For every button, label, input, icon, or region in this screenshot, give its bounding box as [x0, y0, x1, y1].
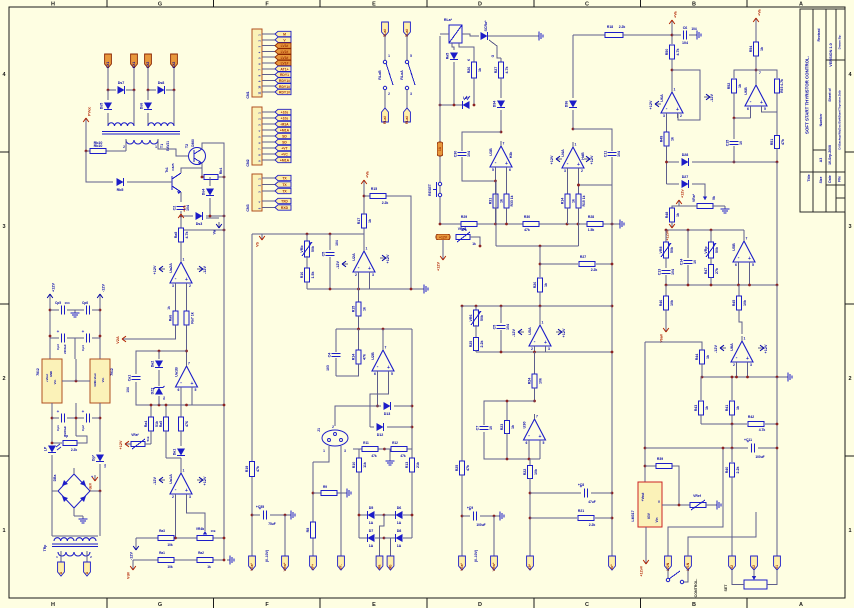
- resistor Rb10: [86, 150, 90, 152]
- svg-text:2.2k: 2.2k: [619, 25, 626, 29]
- port RDY1#: [275, 84, 291, 89]
- wire VRef to ground: [706, 504, 714, 506]
- resistor Ra4: [150, 405, 152, 417]
- svg-text:R50: R50: [665, 49, 669, 56]
- diode D6: [396, 506, 403, 525]
- svg-text:-M1A: -M1A: [280, 123, 289, 127]
- svg-text:VR4b: VR4b: [196, 527, 204, 531]
- port X2b: [751, 556, 758, 570]
- svg-text:1: 1: [366, 247, 368, 251]
- svg-text:+C8: +C8: [578, 483, 584, 487]
- resistor R25c: [455, 461, 470, 475]
- junction U4A output: [572, 128, 575, 131]
- resistor R19: [245, 462, 260, 477]
- port +M1A: [275, 127, 291, 132]
- resistor R45: [738, 285, 740, 296]
- svg-text:C6: C6: [683, 26, 688, 30]
- svg-text:Cp5: Cp5: [55, 301, 61, 305]
- svg-text:+: +: [82, 329, 85, 334]
- resistor R14b: [561, 194, 576, 208]
- port X2: [729, 556, 736, 570]
- svg-text:1: 1: [183, 469, 185, 473]
- port VF-: [338, 556, 345, 570]
- svg-text:Ma: Ma: [378, 565, 382, 570]
- power PVcc: [83, 107, 91, 124]
- svg-text:D13: D13: [384, 412, 391, 416]
- resistor R15b: [576, 194, 581, 208]
- power +12V Ua1A: [197, 476, 207, 485]
- port LV2#: [275, 49, 291, 54]
- wire Ra6 to V2A arrow: [128, 325, 176, 339]
- svg-text:C7: C7: [476, 426, 480, 431]
- svg-text:21k: 21k: [416, 462, 420, 468]
- wire Da1 to Ua1A: [180, 463, 182, 468]
- diode D8: [396, 529, 403, 548]
- port TX: [275, 182, 291, 187]
- long wire x612: [611, 185, 613, 556]
- SET right wire: [767, 570, 777, 585]
- wire node down: [539, 246, 541, 277]
- svg-text:SOFT START THYRISTOR CONTROL.: SOFT START THYRISTOR CONTROL.: [805, 56, 810, 134]
- capacitor C15: [733, 118, 735, 139]
- wire LV1N branch: [688, 512, 756, 556]
- capacitor Ca1: [128, 375, 141, 382]
- svg-text:CX1: CX1: [106, 62, 110, 69]
- svg-text:2: 2: [355, 273, 357, 277]
- svg-text:R44: R44: [695, 354, 699, 361]
- svg-text:1k: 1k: [511, 425, 515, 429]
- svg-text:G: G: [491, 54, 495, 57]
- port RXD: [275, 205, 291, 210]
- resistor R26b: [533, 278, 548, 292]
- svg-text:Size: Size: [819, 176, 823, 183]
- port +M1A: [275, 157, 291, 162]
- wire Ts1 base: [169, 181, 172, 183]
- resistor R13: [411, 449, 413, 458]
- power +12v LM317: [640, 558, 649, 577]
- resistor R24: [534, 352, 536, 374]
- resistor R49: [660, 132, 675, 146]
- svg-text:H: H: [51, 602, 55, 608]
- resistor R44: [695, 350, 710, 364]
- svg-text:C13: C13: [658, 269, 662, 276]
- svg-text:La*: La*: [463, 96, 469, 100]
- svg-text:Ds4: Ds4: [202, 189, 206, 196]
- svg-text:10k: 10k: [743, 300, 747, 306]
- port Ma: [376, 556, 383, 570]
- svg-text:10k: 10k: [534, 469, 538, 475]
- svg-text:G: G: [158, 2, 162, 8]
- svg-text:R53 4.7k: R53 4.7k: [780, 79, 784, 93]
- port M: [275, 31, 291, 36]
- svg-text:-: -: [567, 161, 569, 167]
- resistor Ra3: [158, 535, 174, 540]
- ground R9: [344, 489, 351, 498]
- svg-text:+12v#: +12v#: [640, 565, 644, 577]
- wire KX1 stem: [133, 68, 135, 90]
- op-amp U3B: [489, 141, 513, 172]
- resistor R41: [731, 377, 733, 400]
- pin 5 of CN2: [262, 135, 275, 137]
- port LV2N: [665, 556, 672, 571]
- svg-text:Vd#: Vd#: [127, 571, 131, 579]
- wire U2B pin6: [377, 376, 379, 406]
- power +12v pot: [676, 189, 684, 206]
- row y538: [136, 537, 158, 539]
- pin 6 of CN1: [262, 62, 275, 64]
- pin 7 of CN1: [262, 68, 275, 70]
- svg-text:+10s: +10s: [281, 111, 289, 115]
- svg-text:1: 1: [575, 143, 577, 147]
- power +12V U6A: [649, 100, 661, 109]
- op-amp Ua2A: [169, 257, 192, 288]
- svg-text:Ra2: Ra2: [198, 551, 204, 555]
- port SD: [275, 133, 291, 138]
- resistor Ra2: [197, 557, 213, 562]
- power +12V below pill: [442, 240, 444, 254]
- op-amp U8A: [730, 336, 753, 367]
- svg-text:DBa: DBa: [53, 475, 57, 482]
- svg-text:1: 1: [323, 449, 325, 453]
- op-amp Ua1B: [175, 361, 198, 392]
- svg-text:+: +: [676, 107, 679, 113]
- diode Ds5: [107, 90, 109, 100]
- capacitor Cp1: [52, 417, 59, 419]
- diode Da1: [173, 449, 186, 456]
- svg-text:TRp: TRp: [43, 545, 47, 552]
- power +12V supply: [47, 283, 55, 300]
- svg-text:Revised: Revised: [817, 28, 821, 41]
- capacitor C9 row: [462, 515, 470, 517]
- svg-text:1: 1: [388, 54, 390, 58]
- pin 7 of CN2: [262, 147, 275, 149]
- svg-text:R19: R19: [245, 466, 249, 473]
- wire C2 down: [180, 211, 182, 230]
- port CX1: [105, 54, 112, 68]
- svg-text:VRa*: VRa*: [692, 193, 696, 202]
- svg-text:C2: C2: [173, 206, 177, 211]
- svg-text:2: 2: [332, 425, 334, 429]
- svg-text:RDY1: RDY1: [280, 73, 289, 77]
- power +12V Ua2A: [153, 265, 165, 274]
- svg-text:D:\Backup\MyDoc\SoftStart\Thyr: D:\Backup\MyDoc\SoftStart\Thyristor.Ddb: [838, 90, 842, 150]
- svg-text:1k: 1k: [760, 47, 764, 51]
- svg-text:Dp*: Dp*: [92, 454, 96, 461]
- svg-text:VRw*: VRw*: [283, 562, 287, 571]
- svg-text:100uF: 100uF: [755, 455, 764, 459]
- svg-text:J1: J1: [317, 428, 321, 432]
- svg-text:U5B: U5B: [732, 243, 736, 251]
- svg-text:1k: 1k: [705, 406, 709, 410]
- svg-text:Ua1B: Ua1B: [175, 367, 179, 377]
- svg-text:47k: 47k: [466, 465, 470, 471]
- svg-text:H3k: H3k: [509, 152, 513, 159]
- ground SCR cathode: [536, 32, 543, 41]
- svg-text:+Va: +Va: [674, 10, 678, 18]
- right box side x412: [411, 329, 413, 449]
- svg-text:104: 104: [467, 151, 471, 157]
- svg-text:+12V: +12V: [437, 262, 441, 271]
- ground row end: [227, 556, 234, 565]
- pin 3 of CN3: [262, 190, 275, 192]
- diode D34: [500, 78, 502, 98]
- svg-text:83V: 83V: [647, 512, 651, 519]
- svg-text:-12V: -12V: [203, 266, 207, 274]
- svg-text:U3B: U3B: [489, 148, 493, 156]
- capacitor Cp3: [50, 337, 59, 339]
- svg-text:V2A: V2A: [116, 336, 120, 344]
- svg-text:1: 1: [674, 88, 676, 92]
- svg-text:-12V: -12V: [710, 94, 714, 102]
- top wire to LV port branch: [668, 448, 723, 556]
- feedback box U3B with C30: [462, 132, 501, 151]
- ground U2A rail: [421, 285, 428, 294]
- power Vd# arrow: [132, 560, 134, 564]
- wire pot right to ground: [713, 205, 725, 207]
- connector CN1: [252, 29, 262, 97]
- svg-text:47k: 47k: [371, 454, 377, 458]
- svg-text:+Va: +Va: [366, 170, 370, 178]
- junction dots diode row: [107, 89, 110, 92]
- svg-text:AT1+: AT1+: [280, 67, 288, 71]
- transformer T1: [108, 123, 134, 126]
- svg-text:GND-Vout: GND-Vout: [93, 373, 97, 386]
- svg-text:3: 3: [750, 363, 752, 367]
- svg-text:1k: 1k: [676, 213, 680, 217]
- svg-text:R43: R43: [694, 405, 698, 412]
- resistor R21 row: [530, 517, 577, 519]
- diode D5: [368, 506, 375, 525]
- port AT1+: [275, 66, 291, 71]
- svg-text:1A: 1A: [397, 521, 402, 525]
- svg-text:2.2k: 2.2k: [736, 467, 740, 474]
- pin 4 of CN3: [262, 200, 275, 202]
- svg-text:R26: R26: [467, 67, 471, 74]
- junction dots rail: [439, 223, 442, 226]
- pot VRef: [690, 502, 706, 507]
- LED LP: [44, 444, 62, 453]
- fuse pill: [437, 142, 443, 156]
- capacitor C6: [672, 34, 681, 36]
- wire LM317 bottom: [645, 527, 647, 558]
- capacitor Cp6: [92, 309, 100, 311]
- svg-text:10k: 10k: [210, 529, 215, 533]
- op-amp U2B: [371, 345, 394, 376]
- pin 2 of CN2: [262, 117, 275, 119]
- port A5#: [527, 556, 534, 570]
- wire J1 pin1: [313, 446, 329, 462]
- svg-text:7: 7: [188, 362, 190, 366]
- svg-text:R41: R41: [725, 405, 729, 412]
- svg-text:1A: 1A: [369, 521, 374, 525]
- svg-text:U8A: U8A: [730, 343, 734, 351]
- port KX1: [131, 54, 138, 68]
- svg-text:10: 10: [489, 426, 493, 430]
- pin 3 of CN2: [262, 123, 275, 125]
- svg-text:X1: X1: [775, 565, 779, 569]
- svg-text:5k: 5k: [712, 196, 716, 200]
- svg-text:TXD: TXD: [281, 200, 288, 204]
- capacitor C13: [665, 258, 667, 268]
- svg-text:5: 5: [195, 388, 197, 392]
- svg-text:U30: U30: [523, 422, 527, 429]
- resistor R18: [605, 32, 623, 37]
- diode D27: [667, 183, 680, 185]
- svg-text:104: 104: [691, 27, 697, 31]
- svg-text:VRa*: VRa*: [131, 433, 139, 437]
- svg-text:VRef: VRef: [693, 494, 702, 498]
- svg-text:U2B: U2B: [371, 352, 375, 360]
- svg-text:+: +: [577, 162, 580, 168]
- op-amp U5B: [732, 236, 755, 267]
- svg-text:1A: 1A: [369, 544, 374, 548]
- svg-text:+VT: +VT: [281, 147, 288, 151]
- svg-text:B: B: [692, 602, 696, 608]
- wire U8A pins: [736, 367, 738, 377]
- svg-text:47k: 47k: [781, 139, 785, 145]
- svg-text:1k: 1k: [572, 199, 576, 203]
- wire bridge bottom: [73, 508, 75, 516]
- svg-text:1k: 1k: [472, 242, 476, 246]
- diode Ra5: [452, 43, 454, 50]
- svg-text:+: +: [748, 256, 751, 262]
- svg-text:104: 104: [671, 269, 675, 275]
- svg-text:CN2: CN2: [246, 159, 250, 166]
- svg-text:10k: 10k: [670, 300, 674, 306]
- svg-text:SET: SET: [724, 584, 728, 592]
- svg-text:VERSION 1.0: VERSION 1.0: [829, 43, 833, 66]
- svg-text:2: 2: [172, 495, 174, 499]
- wire U2A pins: [358, 277, 360, 289]
- svg-text:R21: R21: [578, 509, 584, 513]
- row y560: [133, 559, 158, 561]
- wire R45 to U8A output: [739, 310, 742, 334]
- svg-text:2.2k: 2.2k: [480, 341, 484, 348]
- svg-text:+: +: [191, 381, 194, 387]
- svg-text:-: -: [495, 160, 497, 166]
- svg-text:47k: 47k: [363, 354, 367, 360]
- wire J1 pin3: [340, 446, 342, 556]
- wire R54 to U6B: [755, 56, 757, 85]
- port X1: [774, 556, 781, 570]
- svg-text:D8: D8: [397, 529, 402, 533]
- svg-text:D28: D28: [682, 153, 689, 157]
- wire center gnd regs: [62, 380, 90, 382]
- svg-text:D: D: [478, 602, 482, 608]
- wire matrix to Mb: [384, 538, 391, 556]
- svg-text:2: 2: [123, 145, 125, 149]
- pot VR6: [475, 306, 477, 311]
- bridge rectifier DBa: [58, 474, 90, 508]
- wire PVcc down: [85, 124, 87, 151]
- pin 1 of CN1: [262, 33, 275, 35]
- svg-text:VF-: VF-: [339, 564, 343, 569]
- svg-text:U6A: U6A: [660, 94, 664, 102]
- svg-text:-12V: -12V: [153, 477, 157, 485]
- svg-text:-12V: -12V: [336, 261, 340, 269]
- feedback right R53: [756, 70, 777, 78]
- svg-text:SD: SD: [282, 135, 287, 139]
- svg-text:3: 3: [372, 273, 374, 277]
- svg-text:PVcc: PVcc: [88, 107, 92, 116]
- svg-text:A: A: [799, 602, 803, 608]
- svg-text:R33 1k: R33 1k: [510, 195, 514, 206]
- svg-text:R15 1k: R15 1k: [582, 195, 586, 206]
- diode Ds6: [147, 90, 149, 100]
- port VF+: [310, 556, 317, 570]
- svg-text:+12V: +12V: [153, 265, 157, 274]
- port CX2: [145, 54, 152, 68]
- svg-text:Ds7: Ds7: [118, 81, 125, 85]
- svg-text:(0..10V): (0..10V): [265, 550, 269, 562]
- svg-text:3: 3: [663, 114, 665, 118]
- svg-text:VRw*: VRw*: [492, 562, 496, 571]
- svg-text:R8: R8: [306, 528, 310, 533]
- svg-text:Ca1: Ca1: [128, 375, 132, 382]
- port +VT: [275, 145, 291, 150]
- resistor R23: [506, 401, 508, 420]
- resistor R51: [776, 112, 778, 135]
- svg-text:V6a#: V6a#: [660, 333, 664, 343]
- resistor Ra5b: [165, 405, 167, 417]
- svg-text:R29: R29: [461, 215, 467, 219]
- diode Ds4: [209, 177, 211, 186]
- SET potentiometer: [744, 580, 767, 589]
- port RDY1#: [275, 78, 291, 83]
- svg-text:5: 5: [410, 54, 412, 58]
- svg-text:Ra5: Ra5: [446, 53, 450, 60]
- svg-text:-: -: [175, 487, 177, 493]
- resistor Ra9: [180, 405, 182, 417]
- svg-text:VF+: VF+: [311, 564, 315, 570]
- bottom rail y224: [440, 223, 461, 225]
- wire +Va to R54: [755, 24, 757, 42]
- svg-text:Cp3: Cp3: [56, 344, 60, 350]
- wire U2A output up: [363, 228, 365, 246]
- svg-text:2: 2: [581, 169, 583, 173]
- diode Ds3: [181, 215, 193, 217]
- svg-text:Cp2: Cp2: [81, 425, 85, 431]
- svg-text:R27: R27: [494, 67, 498, 74]
- svg-text:CN1: CN1: [246, 91, 250, 98]
- svg-text:R11: R11: [363, 441, 369, 445]
- resistor R29: [461, 221, 477, 226]
- svg-text:1: 1: [542, 321, 544, 325]
- svg-text:D: D: [478, 2, 482, 8]
- wire U5B pins to rail: [738, 267, 740, 285]
- svg-text:Ds5: Ds5: [100, 103, 104, 110]
- svg-text:1k: 1k: [363, 307, 367, 311]
- resistor R14: [358, 329, 360, 350]
- diode Dp: [92, 454, 105, 461]
- svg-text:R18: R18: [607, 25, 613, 29]
- pin 8 of CN2: [262, 153, 275, 155]
- svg-text:3: 3: [2, 224, 5, 230]
- wire KX2 to winding: [173, 90, 175, 126]
- pot VRa*: [697, 203, 713, 208]
- svg-text:+12v: +12v: [681, 189, 685, 198]
- pin 4 of CN2: [262, 129, 275, 131]
- port LV1N: [685, 556, 692, 571]
- svg-text:5: 5: [391, 372, 393, 376]
- wire SCR cathode to ground: [488, 35, 536, 37]
- svg-text:-: -: [528, 433, 530, 439]
- pin 5 of CN1: [262, 56, 275, 58]
- pin 3 of CN1: [262, 45, 275, 47]
- wire KX1 to winding: [133, 90, 135, 126]
- svg-text:+: +: [539, 434, 542, 440]
- svg-text:VEa*: VEa*: [250, 562, 254, 570]
